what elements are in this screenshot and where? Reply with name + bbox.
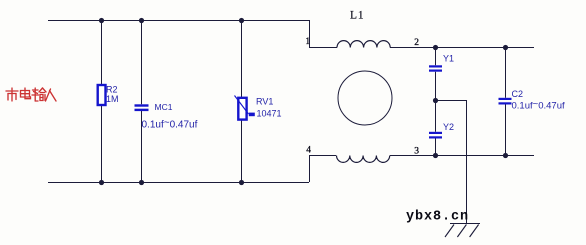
wire Y2 lower lead xyxy=(435,139,437,156)
char 市 xyxy=(11,88,13,90)
node dot line3 Y2 xyxy=(433,153,438,158)
svg-text:ybx8.cn: ybx8.cn xyxy=(406,210,469,225)
node dot top MC1 xyxy=(139,18,144,23)
svg-text:R2: R2 xyxy=(106,85,118,95)
wire bottom-left horizontal xyxy=(48,182,309,184)
earth ground symbol xyxy=(445,224,480,238)
svg-text:1: 1 xyxy=(306,36,311,46)
wire C2 upper lead xyxy=(505,47,507,98)
wire from L1 top winding to right xyxy=(390,47,534,49)
label 市电输入 (mains input, hand-drawn strokes) xyxy=(6,88,56,101)
node dot bottom RV1 xyxy=(239,180,244,185)
capacitor Y2 xyxy=(429,132,442,139)
wire R2 branch vertical xyxy=(101,20,103,182)
L1 core circle xyxy=(338,71,392,125)
wire MC1 branch vertical upper xyxy=(141,20,143,104)
varistor RV1 xyxy=(235,96,255,120)
char 入 xyxy=(46,89,51,101)
svg-text:0.1uf~0.47uf: 0.1uf~0.47uf xyxy=(142,117,198,130)
node dot line2 C2 xyxy=(503,45,508,50)
node dot line2 Y1 xyxy=(433,45,438,50)
wire bottom step vertical xyxy=(309,155,311,182)
node dot top RV1 xyxy=(239,18,244,23)
inductor L1 bottom winding xyxy=(337,156,390,163)
svg-text:1M: 1M xyxy=(106,94,119,104)
svg-text:0.1uf~0.47uf: 0.1uf~0.47uf xyxy=(512,99,565,112)
node dot bottom MC1 xyxy=(139,180,144,185)
wire earth branch horizontal xyxy=(436,100,467,102)
wire MC1 branch vertical lower xyxy=(141,111,143,182)
wire earth branch vertical xyxy=(466,100,468,224)
capacitor MC1 xyxy=(135,104,149,111)
svg-text:2: 2 xyxy=(414,38,419,48)
wire C2 lower lead xyxy=(505,105,507,156)
svg-text:4: 4 xyxy=(306,146,311,156)
wire top step vertical xyxy=(309,20,311,47)
svg-text:RV1: RV1 xyxy=(256,97,273,107)
wire into L1 top winding xyxy=(309,47,337,49)
node dot Y midpoint xyxy=(433,98,438,103)
wire into L1 bottom winding xyxy=(309,155,336,157)
capacitor Y1 xyxy=(429,65,442,71)
wire Y1 upper lead xyxy=(435,47,437,65)
svg-text:C2: C2 xyxy=(512,89,524,99)
wire from L1 bottom winding to right xyxy=(390,155,534,157)
char 电 xyxy=(21,91,30,98)
svg-text:Y2: Y2 xyxy=(443,122,454,132)
wire Y1-Y2 midpoint segment xyxy=(435,72,437,132)
svg-text:L1: L1 xyxy=(350,10,365,22)
node dot bottom R2 xyxy=(99,180,104,185)
wire RV1 branch vertical xyxy=(241,20,243,182)
inductor L1 top winding xyxy=(337,41,390,48)
node dot top R2 xyxy=(99,18,104,23)
node dot line3 C2 xyxy=(503,153,508,158)
wire top-left horizontal xyxy=(48,20,309,22)
svg-text:MC1: MC1 xyxy=(155,102,173,112)
resistor R2 xyxy=(98,85,106,105)
svg-text:3: 3 xyxy=(414,147,419,157)
capacitor C2 xyxy=(499,98,512,105)
svg-text:10471: 10471 xyxy=(257,109,282,119)
char 输 xyxy=(33,89,39,91)
svg-text:Y1: Y1 xyxy=(443,54,454,64)
